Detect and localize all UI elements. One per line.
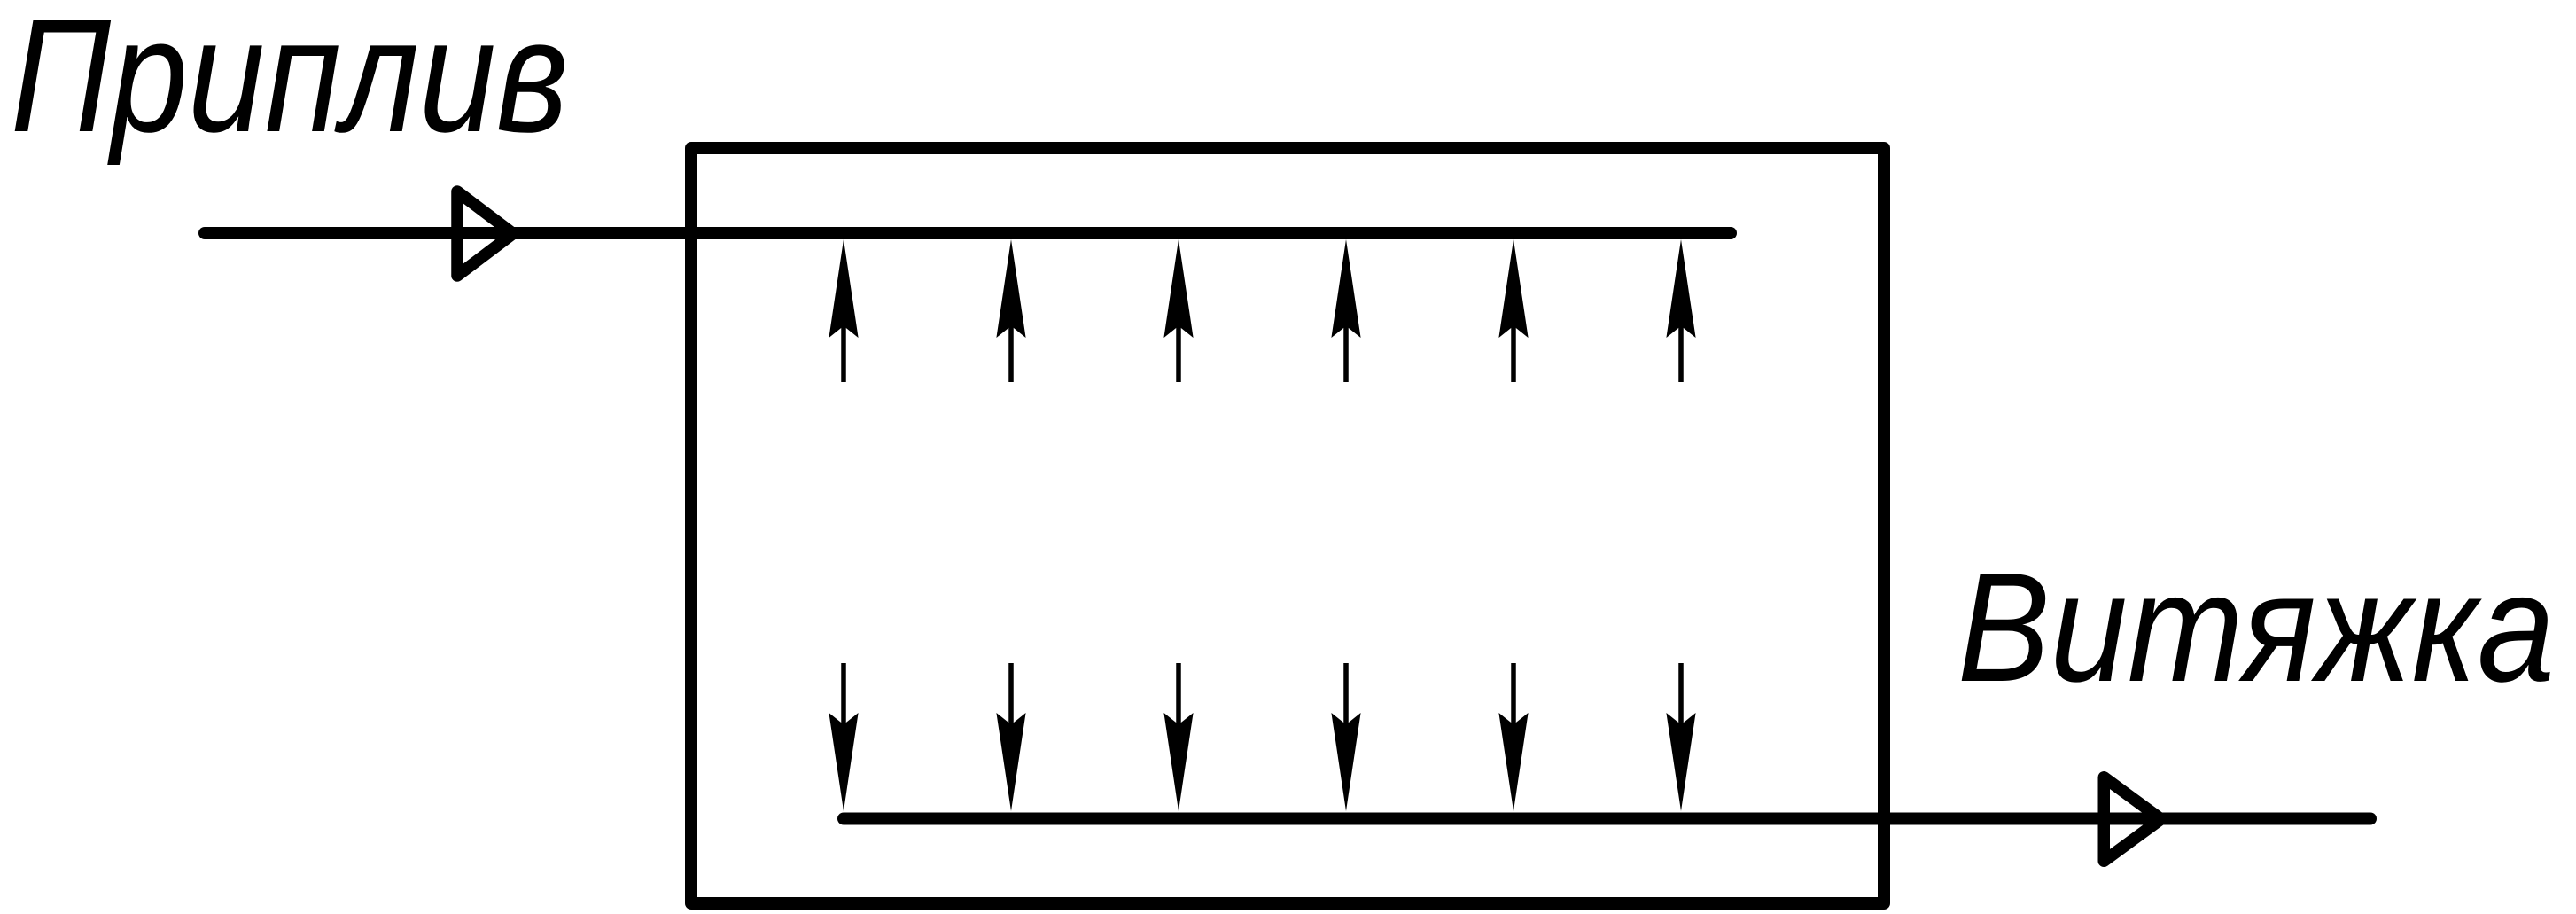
down arrow 2 <box>996 663 1025 811</box>
supply duct line (Приплив) <box>205 227 1731 239</box>
up arrow 3 <box>1163 239 1193 382</box>
supply flow arrowhead (hollow triangle) <box>457 191 513 276</box>
up arrow 6 <box>1666 239 1695 382</box>
label Приплив <box>11 0 568 167</box>
down arrow 1 <box>829 663 858 811</box>
down arrow 6 <box>1666 663 1695 811</box>
exhaust flow arrowhead (hollow triangle) <box>2104 777 2161 862</box>
up arrow 2 <box>996 239 1025 382</box>
up arrow 5 <box>1498 239 1528 382</box>
up arrow 4 <box>1331 239 1360 382</box>
svg-text:Витяжка: Витяжка <box>1957 542 2555 715</box>
up arrow 1 <box>829 239 858 382</box>
exhaust duct line (Витяжка) <box>844 813 2370 825</box>
down arrow 3 <box>1163 663 1193 811</box>
svg-text:Приплив: Приплив <box>11 0 568 167</box>
down arrow 4 <box>1331 663 1360 811</box>
room rectangle <box>691 148 1884 903</box>
label Витяжка <box>1957 542 2555 715</box>
down arrow 5 <box>1498 663 1528 811</box>
